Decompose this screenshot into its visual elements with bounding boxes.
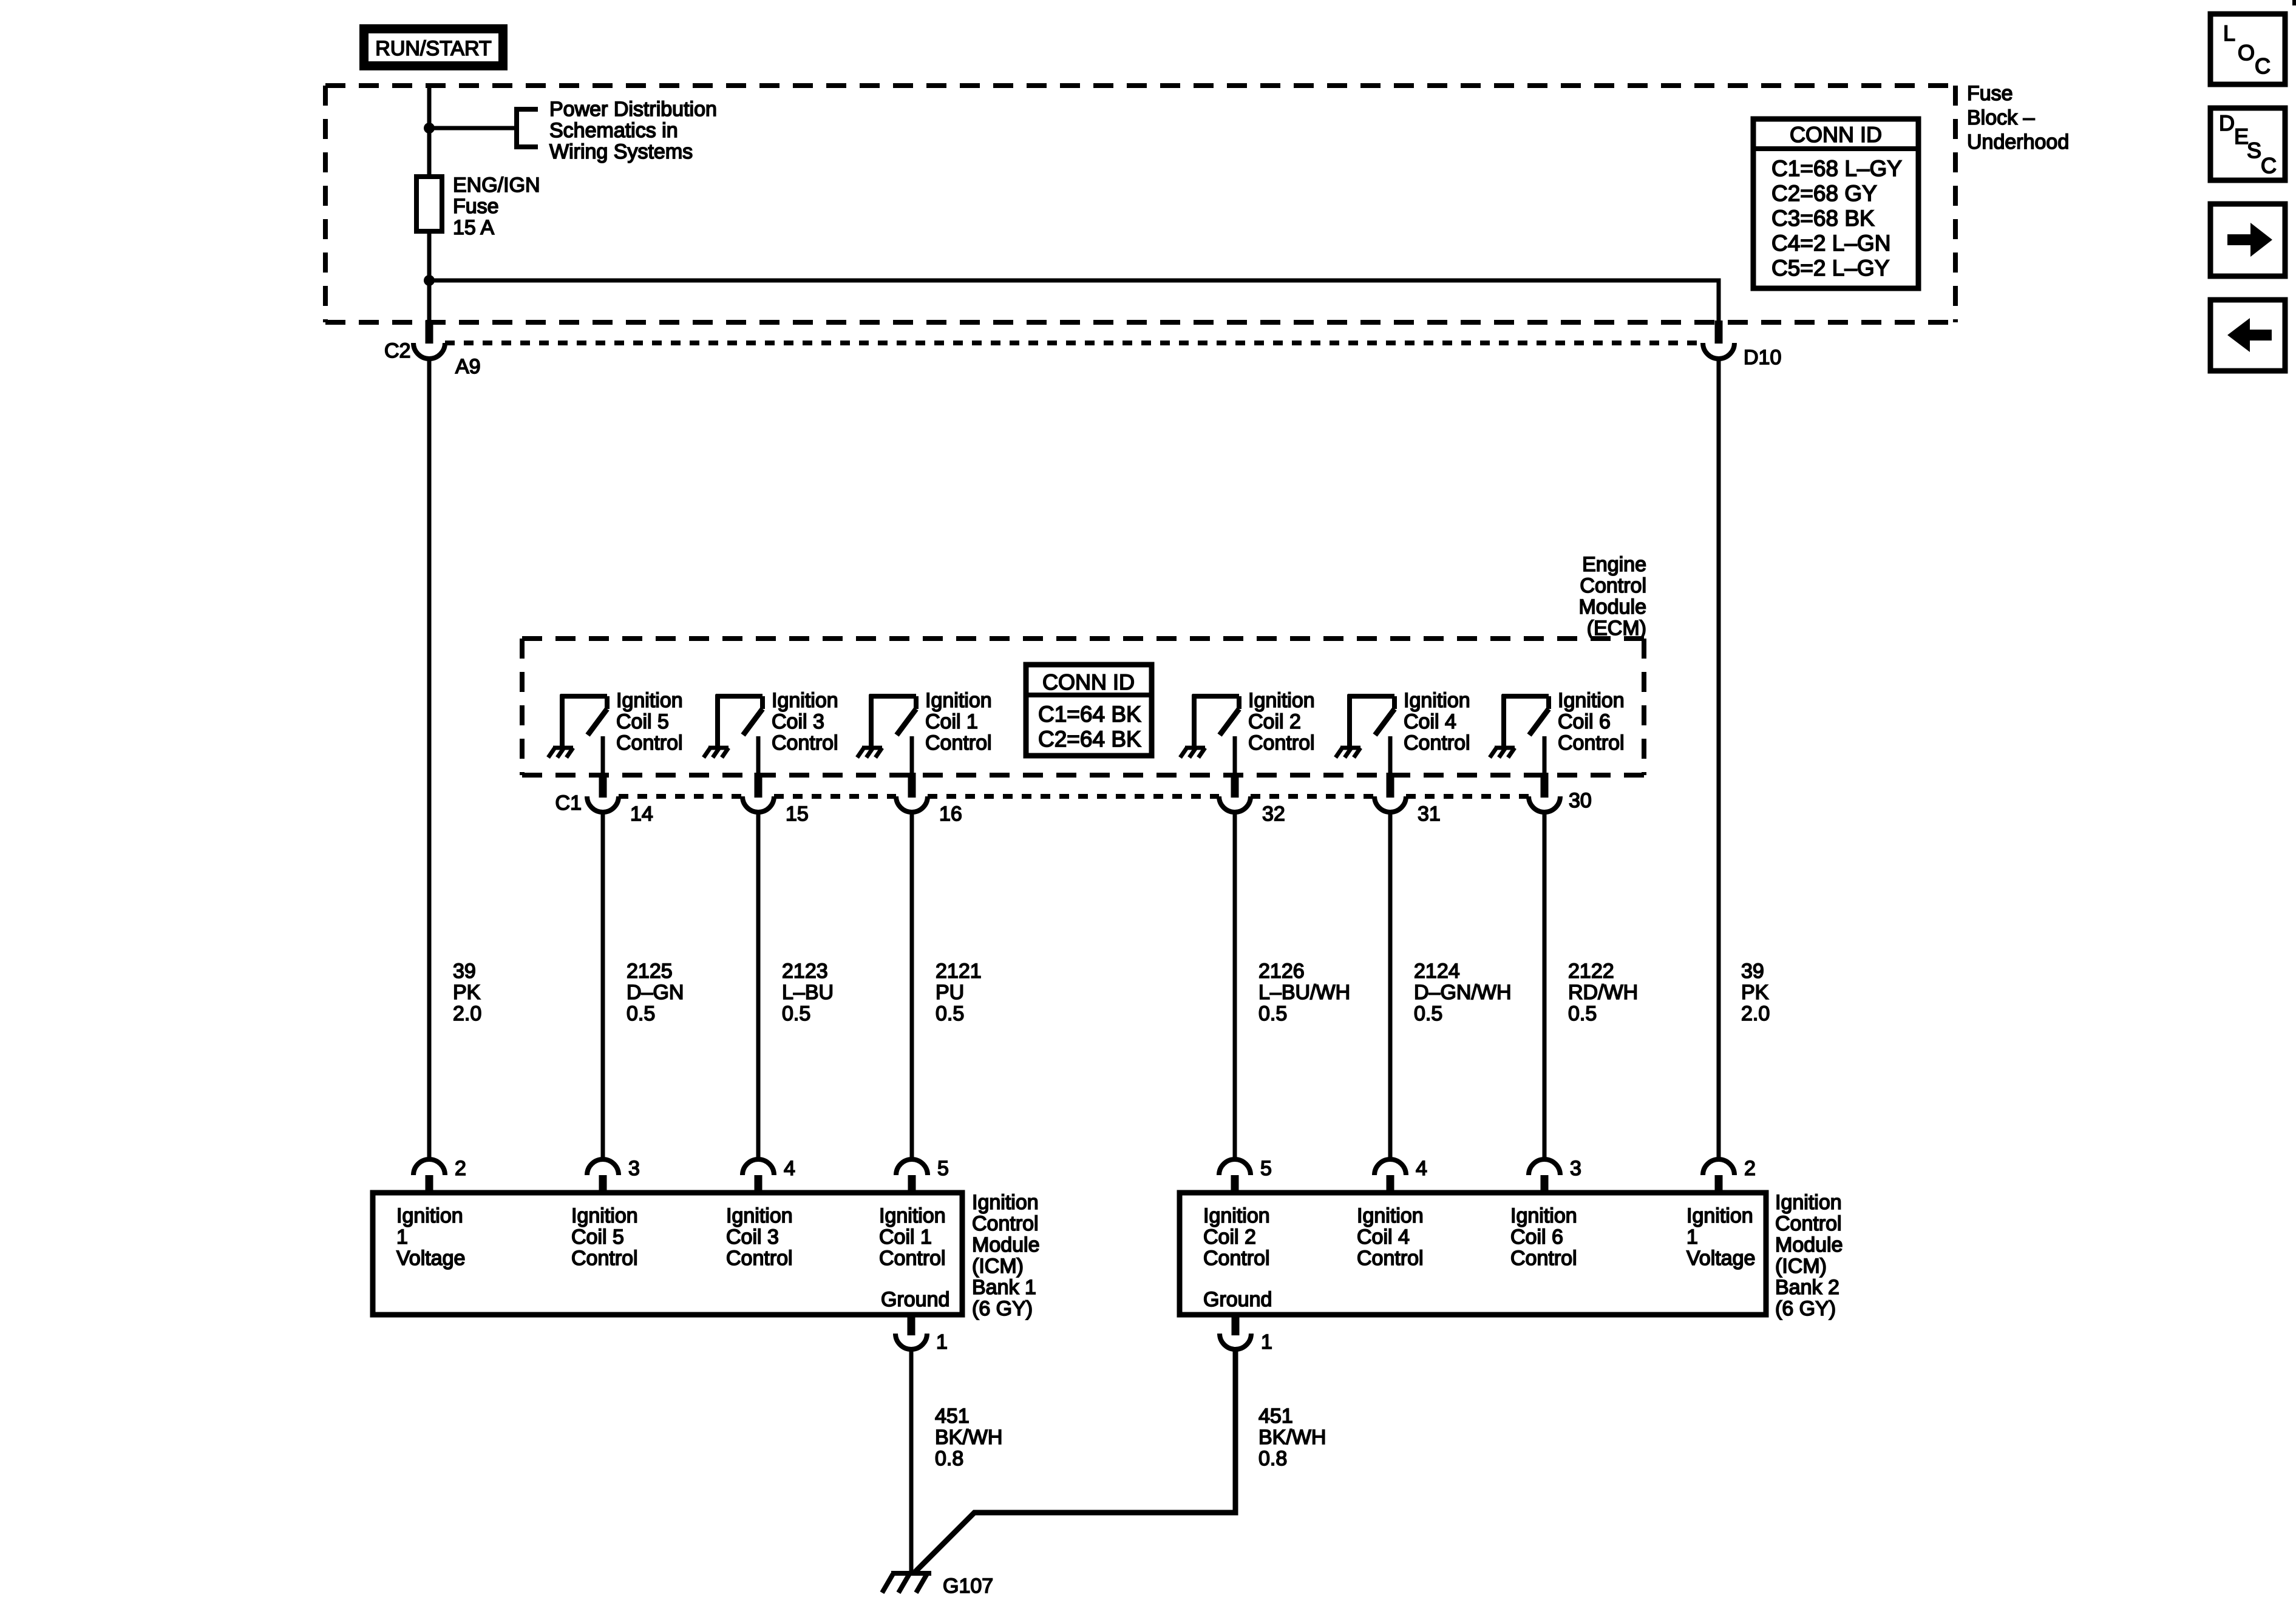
svg-text:Schematics in: Schematics in (549, 119, 678, 142)
svg-text:4: 4 (1416, 1157, 1427, 1180)
svg-text:C2: C2 (384, 339, 410, 362)
svg-text:1: 1 (396, 1225, 408, 1249)
svg-text:Fuse: Fuse (1967, 82, 2013, 105)
svg-text:Bank 1: Bank 1 (972, 1276, 1036, 1299)
svg-text:31: 31 (1418, 802, 1441, 825)
svg-text:C3=68 BK: C3=68 BK (1771, 206, 1875, 231)
transistor/driver switch: Ignition Coil 5 control inside ECM (560, 694, 607, 746)
svg-text:Bank 2: Bank 2 (1775, 1276, 1839, 1299)
svg-text:(6 GY): (6 GY) (972, 1297, 1033, 1320)
ICM connector pin 5 at x=1502 (896, 1159, 928, 1193)
svg-text:ENG/IGN: ENG/IGN (453, 174, 540, 197)
svg-text:Voltage: Voltage (1686, 1247, 1755, 1270)
svg-text:4: 4 (784, 1157, 795, 1180)
svg-text:Ignition: Ignition (571, 1204, 638, 1227)
connector C1 pin 30 (1529, 773, 1560, 812)
reference bracket: power distribution schematics (517, 109, 538, 147)
svg-text:451: 451 (935, 1405, 970, 1428)
svg-text:1: 1 (1261, 1331, 1272, 1354)
connector C2 terminal A9 (413, 320, 445, 359)
svg-text:2126: 2126 (1258, 960, 1305, 983)
transistor/driver switch: Ignition Coil 4 control inside ECM (1348, 694, 1394, 746)
connector C1 pin 31 (1374, 773, 1406, 812)
svg-text:(ECM): (ECM) (1587, 617, 1646, 640)
svg-text:0.5: 0.5 (1568, 1002, 1597, 1025)
fuse ENG/IGN 15 A (416, 177, 442, 231)
connector face line C1 segment (dotted) (619, 794, 742, 799)
svg-text:C1=68 L–GY: C1=68 L–GY (1771, 156, 1902, 181)
svg-text:D–GN: D–GN (627, 981, 684, 1004)
svg-text:Coil 3: Coil 3 (772, 710, 824, 733)
svg-text:Ignition: Ignition (1510, 1204, 1577, 1227)
CONN ID table (fuse block underhood) (1753, 119, 1918, 288)
svg-text:Ignition: Ignition (1686, 1204, 1753, 1227)
svg-text:Coil 6: Coil 6 (1510, 1225, 1563, 1249)
svg-text:Ignition: Ignition (1775, 1191, 1842, 1214)
svg-text:Coil 1: Coil 1 (925, 710, 978, 733)
svg-text:Block –: Block – (1967, 106, 2035, 129)
svg-text:Ignition: Ignition (1248, 689, 1315, 712)
wire 451 BK/WH 0.8 (right, ICM bank 2 pin 1 to G107) (915, 1349, 1235, 1572)
svg-text:RUN/START: RUN/START (375, 37, 491, 60)
svg-text:BK/WH: BK/WH (935, 1426, 1002, 1449)
ICM connector pin 4 at x=1249 (742, 1159, 774, 1193)
transistor/driver switch: Ignition Coil 2 control inside ECM (1192, 694, 1239, 746)
CONN ID table (ECM) (1026, 665, 1152, 756)
button LOC (2210, 14, 2285, 84)
svg-text:3: 3 (628, 1157, 640, 1180)
svg-text:Control: Control (726, 1247, 793, 1270)
svg-text:Control: Control (616, 731, 683, 754)
svg-text:Fuse: Fuse (453, 195, 499, 218)
svg-text:L–BU/WH: L–BU/WH (1258, 981, 1350, 1004)
svg-text:0.8: 0.8 (1258, 1447, 1287, 1470)
svg-text:2124: 2124 (1414, 960, 1460, 983)
svg-text:Coil 2: Coil 2 (1248, 710, 1301, 733)
svg-text:5: 5 (1260, 1157, 1272, 1180)
connector C1 pin 14 (587, 773, 619, 812)
ICM connector pin 2 at x=2831 (1703, 1159, 1734, 1193)
connector D10 (1703, 320, 1734, 359)
svg-text:Control: Control (1357, 1247, 1424, 1270)
engine control module (ECM) boundary (dashed box) (522, 639, 1644, 775)
svg-text:C5=2 L–GY: C5=2 L–GY (1771, 256, 1889, 280)
svg-text:(ICM): (ICM) (1775, 1255, 1827, 1278)
svg-text:Power Distribution: Power Distribution (549, 98, 717, 121)
junction node at fuse input (424, 123, 435, 134)
ICM ground connector pin 1 at x=2035 (1220, 1312, 1251, 1349)
svg-text:Ignition: Ignition (925, 689, 992, 712)
svg-text:2: 2 (455, 1157, 466, 1180)
wire 451 BK/WH 0.8 (left, ICM bank 1 pin 1 to G107) (909, 1349, 914, 1573)
svg-text:2125: 2125 (627, 960, 673, 983)
svg-text:O: O (2238, 40, 2255, 65)
connector face line C1 segment (dotted) (1251, 794, 1374, 799)
svg-text:2.0: 2.0 (453, 1002, 481, 1025)
svg-text:1: 1 (1686, 1225, 1698, 1249)
svg-text:Ignition: Ignition (772, 689, 838, 712)
svg-text:Control: Control (879, 1247, 946, 1270)
svg-text:(6 GY): (6 GY) (1775, 1297, 1836, 1320)
wire: ignition coil 6 control from driver to connector C1 (1543, 736, 1547, 773)
svg-text:0.5: 0.5 (627, 1002, 655, 1025)
svg-text:Ignition: Ignition (972, 1191, 1039, 1214)
ignition control module ICM bank 1 box (373, 1193, 962, 1315)
svg-text:Ignition: Ignition (879, 1204, 946, 1227)
svg-text:Voltage: Voltage (396, 1247, 465, 1270)
connector C1 pin 15 (742, 773, 774, 812)
svg-text:Coil 6: Coil 6 (1558, 710, 1611, 733)
button back arrow (2210, 300, 2285, 371)
svg-text:Control: Control (1404, 731, 1470, 754)
wire: ignition coil 3 control from driver to connector C1 (756, 736, 761, 773)
connector face line C1 segment (dotted) (928, 794, 1219, 799)
transistor/driver switch: Ignition Coil 6 control inside ECM (1502, 694, 1549, 746)
junction node at fuse output (424, 275, 435, 286)
svg-text:2121: 2121 (936, 960, 982, 983)
wire: ignition coil 1 control from driver to connector C1 (910, 736, 914, 773)
svg-text:Ignition: Ignition (1558, 689, 1625, 712)
wire 2126 from ECM C1 to ICM (1233, 812, 1237, 1158)
svg-text:C: C (2255, 53, 2271, 78)
svg-text:CONN ID: CONN ID (1042, 670, 1135, 694)
svg-text:Control: Control (1248, 731, 1315, 754)
wire 39 PK 2.0 (right, D10 to ICM bank 2 pin 2) (1717, 359, 1721, 1158)
svg-text:Engine: Engine (1582, 553, 1646, 576)
svg-text:L: L (2223, 21, 2235, 46)
transistor/driver switch: Ignition Coil 1 control inside ECM (869, 694, 916, 746)
svg-text:Ignition: Ignition (396, 1204, 463, 1227)
ground (ECM internal) for Ignition Coil 1 driver (857, 748, 882, 758)
svg-text:C: C (2261, 153, 2277, 178)
svg-text:C1: C1 (555, 792, 582, 815)
wire 2124 from ECM C1 to ICM (1388, 812, 1393, 1158)
svg-text:Ground: Ground (1203, 1288, 1272, 1311)
svg-text:14: 14 (630, 802, 653, 825)
svg-text:Control: Control (1510, 1247, 1577, 1270)
svg-text:0.5: 0.5 (1414, 1002, 1442, 1025)
svg-text:Coil 5: Coil 5 (616, 710, 669, 733)
page corner mark (2292, 0, 2296, 5)
connector C1 pin 16 (896, 773, 928, 812)
svg-text:RD/WH: RD/WH (1568, 981, 1638, 1004)
ground (ECM internal) for Ignition Coil 3 driver (704, 748, 729, 758)
svg-text:30: 30 (1569, 789, 1592, 812)
connector face line (dotted) of underhood fuse block (445, 341, 1703, 345)
wire: ignition feed from RUN/START down through fuse to connector C2 (427, 86, 432, 323)
svg-text:L–BU: L–BU (782, 981, 834, 1004)
transistor/driver switch: Ignition Coil 3 control inside ECM (716, 694, 763, 746)
svg-text:Control: Control (972, 1212, 1039, 1235)
svg-text:Wiring Systems: Wiring Systems (549, 140, 693, 163)
wire: ignition coil 2 control from driver to connector C1 (1233, 736, 1237, 773)
svg-text:D–GN/WH: D–GN/WH (1414, 981, 1512, 1004)
svg-text:PK: PK (453, 981, 481, 1004)
svg-text:C2=64 BK: C2=64 BK (1038, 727, 1141, 751)
wire: fuse output bus across fuse block down to connector D10 (429, 280, 1719, 323)
svg-text:Coil 1: Coil 1 (879, 1225, 932, 1249)
svg-text:3: 3 (1570, 1157, 1581, 1180)
ICM connector pin 3 at x=993 (587, 1159, 619, 1193)
svg-text:Control: Control (925, 731, 992, 754)
svg-text:Underhood: Underhood (1967, 131, 2069, 154)
ICM connector pin 2 at x=707 (413, 1159, 445, 1193)
svg-text:39: 39 (1741, 960, 1764, 983)
svg-text:2122: 2122 (1568, 960, 1614, 983)
button DESC (2210, 108, 2285, 180)
ground (ECM internal) for Ignition Coil 4 driver (1336, 748, 1360, 758)
svg-text:5: 5 (937, 1157, 949, 1180)
wire: ignition coil 5 control from driver to connector C1 (601, 736, 605, 773)
svg-text:Ignition: Ignition (726, 1204, 793, 1227)
ground (ECM internal) for Ignition Coil 2 driver (1180, 748, 1205, 758)
ground (ECM internal) for Ignition Coil 5 driver (548, 748, 573, 758)
svg-text:0.5: 0.5 (1258, 1002, 1287, 1025)
ICM ground connector pin 1 at x=1501 (895, 1312, 927, 1349)
svg-text:2: 2 (1744, 1157, 1756, 1180)
svg-text:D10: D10 (1744, 346, 1781, 369)
ICM connector pin 5 at x=2034 (1219, 1159, 1251, 1193)
ground (ECM internal) for Ignition Coil 6 driver (1490, 748, 1515, 758)
wire: branch to power distribution reference bracket (429, 126, 517, 131)
svg-text:C1=64 BK: C1=64 BK (1038, 702, 1141, 727)
svg-text:D: D (2219, 110, 2235, 135)
svg-text:A9: A9 (455, 355, 481, 378)
svg-text:15: 15 (786, 802, 809, 825)
svg-text:Module: Module (972, 1233, 1040, 1256)
svg-text:Ignition: Ignition (616, 689, 683, 712)
wire 2123 from ECM C1 to ICM (756, 812, 761, 1158)
svg-text:BK/WH: BK/WH (1258, 1426, 1326, 1449)
ignition control module ICM bank 2 box (1180, 1193, 1766, 1315)
connector C1 pin 32 (1219, 773, 1251, 812)
svg-text:(ICM): (ICM) (972, 1255, 1024, 1278)
svg-text:CONN ID: CONN ID (1790, 122, 1882, 147)
svg-text:Coil 5: Coil 5 (571, 1225, 624, 1249)
svg-text:Ignition: Ignition (1357, 1204, 1424, 1227)
wire 2125 from ECM C1 to ICM (601, 812, 605, 1158)
ICM connector pin 4 at x=2290 (1374, 1159, 1406, 1193)
wire 2121 from ECM C1 to ICM (910, 812, 914, 1158)
svg-text:2123: 2123 (782, 960, 828, 983)
svg-text:32: 32 (1262, 802, 1285, 825)
svg-text:G107: G107 (943, 1575, 993, 1598)
svg-text:Ground: Ground (881, 1288, 949, 1311)
svg-text:16: 16 (939, 802, 962, 825)
ICM connector pin 3 at x=2544 (1529, 1159, 1560, 1193)
svg-text:C4=2 L–GN: C4=2 L–GN (1771, 231, 1890, 256)
svg-text:Coil 3: Coil 3 (726, 1225, 779, 1249)
svg-text:S: S (2247, 138, 2261, 163)
svg-text:Coil 4: Coil 4 (1404, 710, 1456, 733)
wire 2122 from ECM C1 to ICM (1543, 812, 1547, 1158)
wire: ignition coil 4 control from driver to connector C1 (1388, 736, 1393, 773)
svg-text:Control: Control (1203, 1247, 1270, 1270)
svg-text:15 A: 15 A (453, 216, 494, 239)
svg-text:Control: Control (1558, 731, 1625, 754)
svg-text:451: 451 (1258, 1405, 1293, 1428)
svg-text:Module: Module (1775, 1233, 1843, 1256)
svg-text:0.5: 0.5 (936, 1002, 964, 1025)
svg-text:Module: Module (1578, 595, 1646, 619)
svg-text:Control: Control (1580, 574, 1646, 597)
svg-text:2.0: 2.0 (1741, 1002, 1770, 1025)
button forward arrow (2210, 204, 2285, 276)
svg-text:Control: Control (1775, 1212, 1842, 1235)
fuse block - underhood boundary (dashed box) (325, 86, 1955, 322)
svg-text:39: 39 (453, 960, 476, 983)
power feed label box RUN/START (359, 24, 508, 70)
svg-text:Ignition: Ignition (1404, 689, 1470, 712)
svg-text:PU: PU (936, 981, 964, 1004)
wire 39 PK 2.0 (left, C2-A9 to ICM bank 1 pin 2) (427, 359, 432, 1158)
svg-text:Ignition: Ignition (1203, 1204, 1270, 1227)
svg-text:1: 1 (936, 1331, 948, 1354)
svg-text:0.8: 0.8 (935, 1447, 963, 1470)
svg-text:Control: Control (772, 731, 838, 754)
svg-text:PK: PK (1741, 981, 1769, 1004)
svg-text:C2=68 GY: C2=68 GY (1771, 181, 1877, 206)
svg-text:Coil 4: Coil 4 (1357, 1225, 1410, 1249)
connector face line C1 segment (dotted) (774, 794, 896, 799)
svg-text:0.5: 0.5 (782, 1002, 810, 1025)
svg-text:Control: Control (571, 1247, 638, 1270)
svg-text:Coil 2: Coil 2 (1203, 1225, 1256, 1249)
ground G107 (882, 1573, 931, 1593)
connector face line C1 segment (dotted) (1406, 794, 1529, 799)
